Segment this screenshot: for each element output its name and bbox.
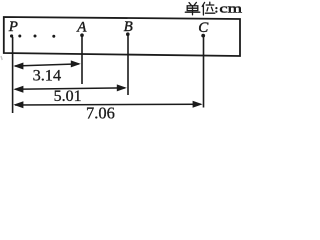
dimension arrow 5.01 (P to B) [13,84,126,92]
point A dot [80,33,84,37]
dimension arrow 7.06 (P to C) [13,101,202,109]
svg-text:7.06: 7.06 [86,103,115,121]
ellipsis dots [18,35,21,38]
extension line from B [127,36,129,95]
extension line from P [12,37,14,113]
svg-text:cm: cm [219,2,242,16]
svg-text:3.14: 3.14 [33,66,62,85]
extension line from C [203,37,205,108]
svg-text:A: A [76,20,87,36]
unit label colon [215,7,217,9]
svg-text:P: P [8,19,18,35]
unit label 单位:cm [185,2,215,15]
point C dot [201,34,205,38]
extension line from A [81,37,83,84]
svg-text:5.01: 5.01 [54,88,82,105]
位 [202,2,204,6]
rectangle box [4,17,240,56]
scan smudge bottom-left corner [1,56,2,60]
dimension arrow 3.14 (P to A) [13,60,80,69]
单 [189,2,196,5]
point B dot [126,32,130,36]
point P dot [10,34,13,37]
